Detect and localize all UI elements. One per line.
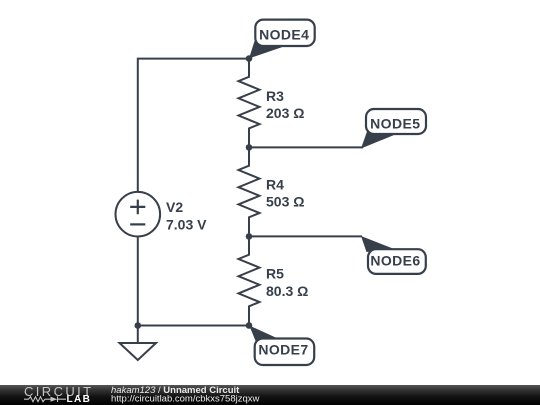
svg-text:203 Ω: 203 Ω xyxy=(266,105,304,121)
svg-text:7.03 V: 7.03 V xyxy=(166,217,207,233)
svg-text:NODE6: NODE6 xyxy=(370,253,420,269)
svg-text:NODE5: NODE5 xyxy=(370,116,420,132)
svg-text:NODE7: NODE7 xyxy=(258,342,308,358)
svg-text:R3: R3 xyxy=(266,88,284,104)
svg-text:80.3 Ω: 80.3 Ω xyxy=(266,283,308,299)
svg-text:http://circuitlab.com/cbkxs758: http://circuitlab.com/cbkxs758jzqxw xyxy=(111,394,260,405)
svg-text:R4: R4 xyxy=(266,177,284,193)
svg-text:R5: R5 xyxy=(266,266,284,282)
svg-text:NODE4: NODE4 xyxy=(259,27,309,43)
svg-text:V2: V2 xyxy=(166,199,183,215)
svg-text:LAB: LAB xyxy=(67,394,92,405)
svg-text:503 Ω: 503 Ω xyxy=(266,194,304,210)
